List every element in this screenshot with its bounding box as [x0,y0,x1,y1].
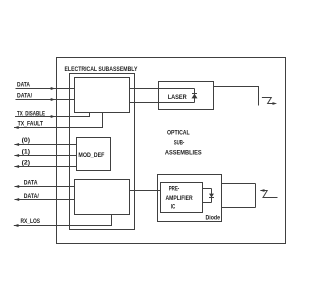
wire ROSA fiber stub right [255,184,257,208]
photodiode triangle [209,194,214,198]
svg-text:LASER: LASER [168,94,187,101]
wire TX_FAULT [14,113,103,128]
wire ROSA fiber stub top [222,183,256,185]
wire MOD_DEF (1) [14,155,76,157]
wire MOD_DEF (0) [14,144,76,146]
arrowhead fiber tx out [273,102,278,105]
wire TX_DISABLE [15,113,90,117]
svg-text:DATA/: DATA/ [17,92,32,99]
wire TOSA fiber output [214,87,259,106]
photodiode cathode bar [209,197,214,199]
wire driver to laser cathode [130,102,195,104]
wire DATA rx output [15,186,75,188]
svg-text:ASSEMBLIES: ASSEMBLIES [165,150,202,157]
arrowhead MOD_DEF (1) [14,154,19,157]
wire ROSA fiber stub bottom [222,207,256,209]
wire DATA/ tx input [16,99,75,101]
svg-text:OPTICAL: OPTICAL [167,130,190,137]
svg-text:SUB-: SUB- [174,139,185,146]
wire driver to laser anode [130,88,195,90]
arrowhead DATA/ tx [51,98,56,101]
ROSA box [158,175,222,222]
arrowhead DATA tx [51,87,56,90]
arrowhead TX_DISABLE [51,115,56,118]
svg-text:ELECTRICAL SUBASSEMBLY: ELECTRICAL SUBASSEMBLY [65,66,138,73]
arrowhead RX_LOS [14,224,19,227]
arrowhead MOD_DEF (2) [14,165,19,168]
laser diode triangle [192,94,198,99]
wire RX_LOS [14,215,112,226]
TOSA laser box [159,82,214,110]
wire MOD_DEF (2) [14,166,76,168]
wire pre-amp to post-amp [130,190,161,192]
post-amplifier IC box U2 [75,180,130,215]
svg-text:MOD_DEF: MOD_DEF [78,152,104,159]
svg-text:DATA/: DATA/ [24,193,39,200]
fiber tx Z symbol [262,98,273,104]
MOD_DEF block box [77,138,111,171]
wire pre-amp to photodiode top [203,188,212,190]
wire pre-amp to photodiode bottom [203,202,212,204]
svg-text:IC: IC [171,204,176,211]
svg-text:(2): (2) [22,160,30,167]
wire photodiode vertical [211,189,213,203]
svg-text:DATA: DATA [17,82,30,89]
svg-text:TX_DISABLE: TX_DISABLE [17,110,45,117]
laser driver IC box U1 [75,78,130,113]
svg-text:PRE-: PRE- [169,186,180,193]
svg-text:RX_LOS: RX_LOS [21,218,41,225]
wire DATA tx input [16,88,75,90]
fiber rx Z symbol [261,191,278,198]
electrical subassembly boundary box [70,74,135,230]
svg-text:(0): (0) [22,137,30,144]
arrowhead DATA rx [15,185,20,188]
pre-amplifier IC box U3 [161,183,203,213]
svg-text:DATA: DATA [24,180,38,187]
arrowhead DATA/ rx [15,198,20,201]
module outer boundary box [57,58,286,244]
arrowhead MOD_DEF (0) [14,143,19,146]
arrowhead TX_FAULT [14,126,19,129]
svg-text:AMPLIFIER: AMPLIFIER [166,195,194,202]
svg-text:Diode: Diode [206,214,221,221]
svg-text:TX_FAULT: TX_FAULT [18,121,44,128]
laser diode cathode bar [192,93,197,95]
wire DATA/ rx output [15,199,75,201]
arrowhead fiber rx in [260,189,265,192]
svg-text:(1): (1) [22,148,30,155]
wire laser diode vertical [194,89,196,103]
